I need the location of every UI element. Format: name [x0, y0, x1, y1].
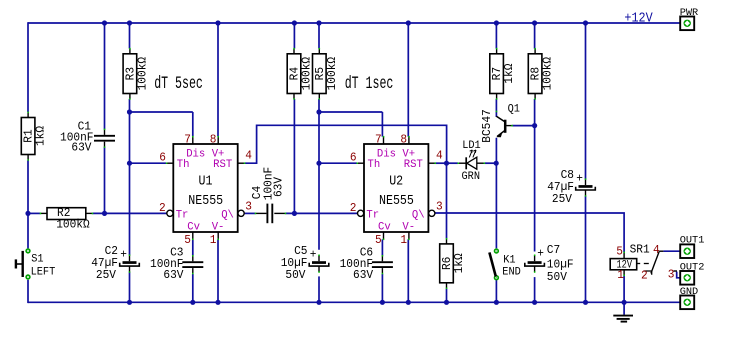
- svg-text:5: 5: [616, 244, 623, 259]
- svg-text:+: +: [310, 247, 317, 262]
- svg-text:RST: RST: [404, 159, 423, 171]
- svg-text:100kΩ: 100kΩ: [135, 57, 150, 90]
- svg-text:4: 4: [653, 242, 660, 257]
- svg-text:+12V: +12V: [624, 10, 652, 26]
- svg-text:2: 2: [350, 201, 357, 216]
- svg-text:1: 1: [617, 267, 624, 282]
- svg-text:2: 2: [159, 201, 166, 216]
- svg-text:LD1: LD1: [462, 140, 481, 152]
- svg-text:dT 5sec: dT 5sec: [154, 75, 203, 94]
- svg-text:63V: 63V: [71, 140, 91, 155]
- svg-text:8: 8: [210, 132, 217, 147]
- svg-text:3: 3: [436, 199, 443, 214]
- svg-text:LEFT: LEFT: [31, 266, 56, 278]
- svg-text:25V: 25V: [96, 268, 116, 283]
- svg-text:6: 6: [350, 150, 357, 165]
- svg-text:Q1: Q1: [508, 103, 520, 115]
- svg-text:U1: U1: [199, 173, 213, 189]
- svg-text:5: 5: [184, 233, 191, 248]
- svg-text:8: 8: [400, 132, 407, 147]
- svg-text:+: +: [576, 171, 583, 186]
- svg-text:50V: 50V: [547, 270, 567, 285]
- svg-text:63V: 63V: [271, 177, 286, 197]
- svg-text:Tr: Tr: [366, 209, 379, 221]
- svg-text:PWR: PWR: [680, 7, 699, 19]
- svg-text:4: 4: [245, 148, 252, 163]
- svg-text:4: 4: [436, 148, 443, 163]
- svg-text:63V: 63V: [353, 268, 373, 283]
- svg-text:+: +: [120, 247, 127, 262]
- svg-text:1kΩ: 1kΩ: [452, 253, 467, 273]
- svg-text:100kΩ: 100kΩ: [540, 57, 555, 90]
- svg-text:OUT1: OUT1: [680, 235, 705, 247]
- svg-text:+: +: [537, 246, 544, 261]
- svg-text:Th: Th: [368, 159, 381, 171]
- svg-text:OUT2: OUT2: [680, 261, 705, 273]
- svg-text:63V: 63V: [163, 268, 183, 283]
- svg-text:NE555: NE555: [379, 192, 414, 208]
- svg-text:6: 6: [159, 150, 166, 165]
- svg-text:Th: Th: [177, 159, 190, 171]
- svg-text:C7: C7: [547, 243, 560, 258]
- svg-text:100kΩ: 100kΩ: [56, 217, 89, 232]
- svg-text:U2: U2: [389, 173, 403, 189]
- svg-text:RST: RST: [213, 159, 232, 171]
- svg-text:BC547: BC547: [480, 109, 495, 142]
- svg-text:END: END: [502, 266, 521, 278]
- svg-text:1: 1: [210, 233, 217, 248]
- svg-text:S1: S1: [31, 253, 43, 265]
- svg-text:100kΩ: 100kΩ: [324, 57, 339, 90]
- svg-text:dT 1sec: dT 1sec: [345, 75, 394, 94]
- svg-text:3: 3: [245, 199, 252, 214]
- svg-text:1kΩ: 1kΩ: [33, 126, 48, 146]
- svg-text:GRN: GRN: [462, 171, 481, 183]
- svg-text:2: 2: [641, 268, 648, 283]
- svg-text:GND: GND: [680, 286, 699, 298]
- svg-text:1: 1: [400, 233, 407, 248]
- svg-text:K1: K1: [503, 254, 515, 266]
- svg-text:7: 7: [184, 132, 191, 147]
- svg-text:Q\: Q\: [412, 209, 425, 221]
- svg-text:50V: 50V: [285, 268, 305, 283]
- svg-text:25V: 25V: [552, 192, 572, 207]
- svg-text:3: 3: [668, 267, 675, 282]
- svg-text:SR1: SR1: [630, 242, 650, 257]
- svg-text:5: 5: [375, 233, 382, 248]
- svg-text:NE555: NE555: [188, 192, 223, 208]
- svg-text:Q\: Q\: [221, 209, 234, 221]
- svg-text:7: 7: [375, 132, 382, 147]
- svg-text:1kΩ: 1kΩ: [502, 64, 517, 84]
- svg-text:Tr: Tr: [176, 209, 189, 221]
